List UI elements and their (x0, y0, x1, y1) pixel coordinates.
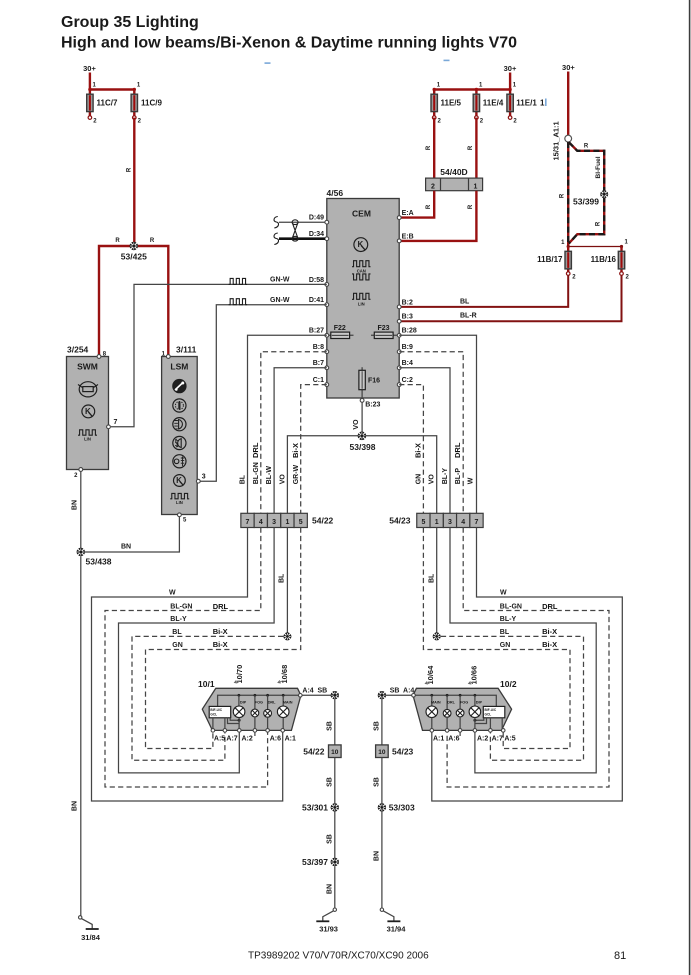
control SWM 3/254 box (67, 345, 109, 470)
splice Bi-X left (283, 632, 291, 640)
svg-text:DRL: DRL (542, 602, 558, 611)
svg-text:B:28: B:28 (402, 328, 417, 335)
power 30+ node (right) (562, 63, 575, 135)
svg-text:A:4: A:4 (302, 688, 313, 695)
lamp 10/2 MAIN bulb (426, 701, 441, 731)
connector 54/23 pin 10 (376, 745, 414, 758)
connector 15/31_A1:1 (552, 121, 572, 160)
svg-text:BN: BN (373, 851, 380, 861)
svg-text:Bi-X: Bi-X (291, 443, 300, 458)
svg-text:A:7: A:7 (226, 736, 237, 743)
svg-text:3/111: 3/111 (176, 345, 197, 355)
fuse 11C/9 (131, 83, 162, 125)
svg-text:BL-Y: BL-Y (500, 616, 517, 623)
svg-text:4: 4 (461, 519, 465, 526)
wire BL-R fuse 11B/16 to CEM B:3 (401, 275, 622, 321)
svg-text:BN: BN (72, 801, 79, 811)
svg-text:7: 7 (246, 519, 250, 526)
svg-text:E:A: E:A (402, 210, 414, 217)
SWM pin 8 (97, 352, 107, 359)
wire R 11E/5 to relay 54/40D (426, 118, 434, 179)
wire GN Bi-X 54/22 pin 5 to lamp 10/1 A:5 (146, 528, 301, 749)
svg-text:B:3: B:3 (402, 314, 413, 321)
svg-text:54/40D: 54/40D (440, 167, 467, 177)
svg-text:A:4: A:4 (403, 688, 414, 695)
svg-text:DIP: DIP (476, 701, 483, 705)
CEM pin E:B (397, 233, 413, 243)
svg-text:BL-Y: BL-Y (442, 468, 449, 485)
svg-text:DRL: DRL (447, 701, 455, 705)
fuse 11E/5 (431, 83, 462, 125)
wire R relay to CEM E:B (401, 191, 476, 241)
twisted pair symbol (292, 220, 298, 241)
svg-text:A:5: A:5 (214, 736, 225, 743)
svg-text:53/438: 53/438 (86, 557, 112, 567)
CEM pin C:2 (397, 377, 413, 387)
svg-text:11B/16: 11B/16 (591, 255, 617, 264)
lamp 10/2 DRL bulb (443, 701, 455, 731)
control LSM 3/111 box (162, 345, 198, 515)
svg-text:R: R (584, 144, 589, 150)
svg-text:1: 1 (540, 99, 545, 108)
wire BN to ground 31/94 (373, 812, 382, 908)
svg-text:R: R (596, 221, 602, 226)
lamp 10/1 pin A:5 (211, 729, 225, 743)
svg-text:VO: VO (429, 474, 436, 485)
splice 53/303 (378, 802, 415, 812)
lamp 10/2 pin A:2 (473, 729, 488, 743)
svg-text:BN: BN (72, 500, 79, 510)
svg-text:SB: SB (373, 777, 380, 787)
lamp 10/1 pin mid (253, 729, 257, 736)
svg-text:53/303: 53/303 (389, 802, 415, 812)
power 30+ node (middle) (504, 64, 517, 90)
svg-text:GN: GN (172, 642, 183, 649)
LSM LIN icon (170, 493, 189, 505)
svg-text:R: R (468, 145, 474, 150)
svg-text:CEM: CEM (352, 209, 371, 219)
svg-text:BL-W: BL-W (266, 466, 273, 485)
CEM pin D:49 (309, 215, 329, 225)
svg-text:Bi-X: Bi-X (413, 443, 422, 458)
svg-text:E:B: E:B (402, 233, 414, 240)
junction SB left (331, 691, 339, 699)
svg-text:10/68: 10/68 (280, 665, 289, 684)
wire BL 54/23 pin 1 to splice (429, 528, 437, 635)
wire BL fuse 11B/17 to CEM B:2 (401, 275, 568, 307)
power 30+ node (left) (83, 64, 96, 90)
svg-text:B:9: B:9 (402, 344, 413, 351)
svg-text:54/22: 54/22 (303, 747, 325, 757)
svg-text:W: W (500, 590, 507, 597)
CEM LIN icon (352, 293, 371, 306)
svg-text:A:6: A:6 (270, 736, 281, 743)
svg-text:10/2: 10/2 (500, 679, 517, 689)
svg-text:LIN: LIN (358, 301, 365, 306)
svg-text:GCL: GCL (210, 712, 217, 716)
svg-text:BL: BL (172, 629, 182, 636)
lamp 10/1 pin A:1 (281, 729, 296, 743)
svg-text:DRL: DRL (268, 701, 276, 705)
svg-text:SB: SB (326, 777, 333, 787)
CEM pin D:41 (309, 297, 329, 307)
junction SB right (378, 691, 386, 699)
svg-text:FOG: FOG (255, 701, 263, 705)
svg-text:4/56: 4/56 (327, 188, 344, 198)
headlamp 10/2 housing (413, 679, 517, 730)
wire 30+ to fuses 11E (433, 88, 512, 91)
svg-text:30+: 30+ (504, 64, 517, 73)
svg-text:R: R (115, 238, 120, 244)
CEM pin B:3 (397, 314, 413, 323)
svg-text:Group 35 Lighting: Group 35 Lighting (61, 14, 199, 31)
svg-text:11E/4: 11E/4 (483, 99, 504, 108)
lamp 10/1 pin A:7 (223, 729, 238, 743)
wire fuse 11B/17 to 11B/16 terminal 1 (561, 240, 628, 249)
svg-text:2: 2 (431, 184, 435, 191)
svg-text:GN-W: GN-W (270, 297, 290, 304)
SWM steering wheel icon (78, 382, 98, 397)
svg-text:D:49: D:49 (309, 215, 324, 222)
svg-text:F16: F16 (368, 377, 380, 384)
wire SB lamp 10/2 to connector 54/23 pin 10 (373, 699, 382, 745)
wire R to SWM and LSM (99, 238, 168, 355)
svg-text:B:7: B:7 (313, 360, 324, 367)
wire BN splice 53/438 to ground 31/84 (72, 556, 81, 916)
wire GN-W CEM D:58 to SWM pin 7 (111, 277, 327, 427)
svg-text:BL-GN: BL-GN (253, 462, 260, 484)
svg-text:BL: BL (429, 573, 436, 583)
relay 54/40D (426, 167, 483, 191)
svg-text:A:2: A:2 (477, 736, 488, 743)
splice 53/397 (302, 857, 339, 867)
svg-text:1: 1 (285, 519, 289, 526)
lamp 10/2 pin mid (458, 729, 462, 736)
lamp 10/2 pin A:5 (501, 729, 515, 743)
page number (614, 950, 626, 962)
splice 53/438 (77, 548, 112, 567)
svg-text:DRL: DRL (453, 442, 462, 458)
svg-text:15/31_A1:1: 15/31_A1:1 (552, 121, 561, 160)
svg-text:11B/17: 11B/17 (537, 255, 563, 264)
svg-text:Bi-X: Bi-X (542, 627, 557, 636)
svg-text:DRL: DRL (213, 602, 229, 611)
wire D:34 (twisted pair, shield) (274, 233, 325, 245)
splice 53/399 (573, 190, 608, 206)
svg-text:A:1: A:1 (433, 736, 444, 743)
page right border (689, 0, 691, 975)
svg-text:D:34: D:34 (309, 231, 324, 238)
svg-text:BIF-U/C: BIF-U/C (210, 708, 222, 712)
wire GN-W CEM D:41 to LSM pin 3 (200, 297, 327, 481)
svg-text:10: 10 (331, 749, 339, 756)
wire VO CEM B:23 to splice 53/398 (353, 402, 362, 433)
svg-text:4: 4 (259, 519, 263, 526)
wire BL-Y CEM B:4 to 54/23 pin 3 (399, 368, 450, 514)
lamp 10/2 pin A:7 (489, 729, 503, 743)
SWM pin 2 (74, 468, 83, 479)
LSM front fog icon (173, 436, 186, 449)
CEM pin B:23 (360, 399, 380, 409)
svg-text:BL-Y: BL-Y (170, 616, 187, 623)
svg-text:DIP: DIP (240, 701, 247, 705)
wire BL-W CEM B:7 to 54/22 pin 3 (266, 368, 327, 514)
wire W CEM B:28 to 54/23 pin 7 (399, 335, 476, 513)
wire BL Bi-X splice to lamp 10/2 A:7 (441, 627, 584, 760)
svg-text:VO: VO (279, 474, 286, 485)
svg-text:30+: 30+ (562, 63, 575, 72)
svg-text:11C/7: 11C/7 (97, 99, 118, 108)
svg-text:5: 5 (299, 519, 303, 526)
CEM pin E:A (397, 210, 413, 220)
svg-text:F23: F23 (377, 325, 389, 332)
CEM pin B:2 (397, 299, 413, 309)
lamp 10/1 FOG bulb (251, 701, 263, 731)
svg-text:BL: BL (240, 474, 247, 484)
svg-text:11C/9: 11C/9 (141, 99, 162, 108)
CEM pin B:8 (313, 344, 329, 354)
svg-text:81: 81 (614, 950, 626, 962)
svg-text:LIN: LIN (176, 500, 183, 505)
svg-text:BI-Fuel: BI-Fuel (595, 156, 602, 178)
svg-text:B:2: B:2 (402, 299, 413, 306)
fuse F23 (371, 325, 399, 339)
wire R Bi-Fuel detour via splice 53/399 (569, 142, 604, 243)
wire BL CEM B:27 to 54/22 pin 7 (240, 335, 327, 513)
svg-text:54/22: 54/22 (312, 516, 334, 526)
wire VO to 54/22 pin 1 and 54/23 pin 1 (279, 436, 436, 514)
SWM LIN icon (78, 430, 97, 442)
svg-text:A:5: A:5 (504, 736, 515, 743)
splice Bi-X right (433, 632, 441, 640)
LSM light switch icon (173, 380, 186, 393)
svg-text:BL-GN: BL-GN (500, 604, 522, 611)
wire SB lamp 10/1 to connector 54/22 pin 10 (326, 699, 335, 745)
wire 30+ to fuses 11C/7 11C/9 (88, 88, 136, 91)
svg-text:A:7: A:7 (492, 736, 503, 743)
splice 53/301 (302, 802, 339, 812)
svg-text:B:4: B:4 (402, 360, 413, 367)
lamp 10/1 pin A:2 (238, 729, 253, 743)
fuse 11C/7 (87, 83, 118, 125)
svg-text:GN: GN (415, 474, 422, 485)
svg-text:F22: F22 (334, 325, 346, 332)
svg-text:10/1: 10/1 (198, 679, 215, 689)
wire SB to splice 53/397 (326, 812, 335, 860)
connector 54/22 pin 10 (303, 745, 341, 758)
svg-text:BL: BL (500, 629, 510, 636)
svg-text:54/23: 54/23 (392, 747, 414, 757)
CEM pin B:9 (397, 344, 413, 354)
svg-text:LIN: LIN (84, 437, 91, 442)
wire BN SWM pin 2 to splice 53/438 (72, 471, 81, 550)
CEM pin B:7 (313, 360, 329, 369)
svg-text:D:41: D:41 (309, 297, 324, 304)
ground 31/84 (79, 916, 101, 942)
lamp 10/2 internal ground rail (414, 694, 496, 710)
svg-text:BN: BN (326, 884, 333, 894)
svg-text:1: 1 (474, 184, 478, 191)
svg-text:54/23: 54/23 (389, 516, 411, 526)
lamp 10/2 FOG bulb (456, 701, 468, 731)
wire R 11C/9 to splice 53/425 (127, 118, 135, 246)
lamp 10/1 internal ground rail (218, 694, 300, 710)
CEM pin D:34 (309, 231, 329, 241)
CEM pin B:27 (309, 328, 329, 337)
wire GN Bi-X 54/23 pin 5 to lamp 10/2 A:5 (423, 528, 570, 749)
wire W 54/23 pin 7 to lamp 10/2 A:1 (432, 528, 623, 802)
svg-text:GN-W: GN-W (270, 277, 290, 284)
svg-text:3: 3 (272, 519, 276, 526)
wire BL-P DRL CEM B:9 to 54/23 pin 4 (399, 352, 463, 514)
CEM CAN icon (352, 261, 371, 280)
svg-text:DRL: DRL (251, 442, 260, 458)
wire W 54/22 pin 7 to lamp 10/1 A:1 (92, 528, 283, 802)
ground 31/93 (316, 908, 338, 934)
svg-text:B:8: B:8 (313, 344, 324, 351)
svg-text:3: 3 (202, 473, 206, 480)
wire SB to splice 53/303 (373, 758, 382, 806)
svg-text:R: R (150, 238, 155, 244)
svg-text:FOG: FOG (460, 701, 468, 705)
connector 54/22 pins 7 4 3 1 5 (241, 513, 334, 527)
wire SB to splice 53/301 (326, 758, 335, 806)
svg-text:Bi-X: Bi-X (542, 640, 557, 649)
svg-text:BN: BN (121, 544, 131, 551)
CEM K icon (354, 238, 368, 252)
svg-text:53/397: 53/397 (302, 857, 328, 867)
svg-text:53/399: 53/399 (573, 197, 599, 207)
svg-text:LSM: LSM (170, 362, 188, 372)
svg-text:C:1: C:1 (313, 377, 324, 384)
svg-text:A:1: A:1 (285, 736, 296, 743)
svg-text:30+: 30+ (83, 64, 96, 73)
page header title (61, 14, 517, 52)
svg-text:R: R (468, 204, 474, 209)
wire BL-Y 54/22 pin 3 to lamp 10/1 A:2 (119, 528, 275, 773)
svg-text:CAN: CAN (357, 268, 366, 273)
lamp 10/2 DIP bulb (469, 701, 486, 731)
svg-text:53/425: 53/425 (121, 252, 147, 262)
svg-text:3/254: 3/254 (67, 345, 89, 355)
svg-text:11E/1: 11E/1 (516, 99, 537, 108)
svg-text:R: R (560, 193, 566, 198)
svg-text:High and low beams/Bi-Xenon &: High and low beams/Bi-Xenon & Daytime ru… (61, 35, 517, 52)
svg-text:MAIN: MAIN (283, 701, 293, 705)
svg-text:R: R (127, 167, 133, 172)
svg-text:10: 10 (378, 749, 386, 756)
LSM pin 3 (196, 479, 200, 483)
lamp 10/1 bi-xenon igniter box (209, 706, 231, 730)
svg-text:GN: GN (500, 642, 511, 649)
splice 53/425 (121, 242, 147, 262)
svg-text:B:27: B:27 (309, 328, 324, 335)
lamp 10/1 pin A:4 and SB wire (299, 688, 333, 698)
svg-text:A:2: A:2 (242, 736, 253, 743)
svg-text:BL: BL (279, 573, 286, 583)
fuse 11B/17 (537, 247, 576, 281)
svg-text:7: 7 (475, 519, 479, 526)
svg-text:TP3989202 V70/V70R/XC70/XC90 2: TP3989202 V70/V70R/XC70/XC90 2006 (248, 951, 429, 962)
CEM pin B:4 (397, 360, 413, 369)
lamp 10/1 MAIN bulb (277, 701, 292, 731)
link artifact marks (265, 60, 547, 106)
svg-text:SB: SB (390, 688, 400, 695)
CEM pin D:58 (309, 277, 329, 287)
svg-text:SB: SB (326, 834, 333, 844)
svg-text:BL-P: BL-P (455, 468, 462, 485)
SWM pin 7 (107, 425, 111, 429)
svg-text:10/64: 10/64 (426, 665, 435, 685)
fuse 11E/4 (473, 83, 504, 125)
ground 31/94 (380, 908, 406, 934)
svg-text:SB: SB (318, 688, 328, 695)
lamp 10/2 pin A:6 (445, 729, 459, 743)
svg-text:BL-GN: BL-GN (170, 604, 192, 611)
svg-text:W: W (169, 590, 176, 597)
wire BL 54/22 pin 1 to splice (279, 528, 288, 635)
svg-text:BIF-U/C: BIF-U/C (485, 708, 497, 712)
LSM K icon (174, 475, 186, 487)
fuse F22 (327, 325, 354, 339)
headlamp 10/1 housing (198, 679, 301, 730)
svg-text:31/94: 31/94 (387, 925, 407, 934)
lamp 10/1 DRL bulb (264, 701, 276, 731)
wire BL-GN DRL to lamp 10/1 A:6 (105, 528, 268, 788)
wire BL-Y 54/23 pin 3 to lamp 10/2 A:2 (450, 528, 596, 773)
lamp 10/2 pin A:4 and SB wire (384, 688, 416, 698)
wire BL Bi-X splice to lamp 10/1 A:7 (132, 627, 283, 760)
LSM headlight icon (173, 418, 186, 431)
splice 53/398 (350, 432, 376, 453)
lamp 10/1 DIP bulb (228, 701, 247, 731)
svg-text:R: R (426, 204, 432, 209)
wire D:49 (twisted pair) (274, 217, 325, 229)
svg-text:A:6: A:6 (448, 736, 459, 743)
svg-text:31/84: 31/84 (81, 933, 101, 942)
svg-text:VO: VO (353, 419, 360, 430)
connector 54/23 pins 5 1 3 4 7 (389, 513, 483, 527)
svg-text:1: 1 (435, 519, 439, 526)
connector 10/66 label (469, 666, 479, 685)
wire BL-GN DRL CEM B:8 to 54/22 pin 4 (251, 352, 327, 514)
fuse 11B/16 (591, 247, 630, 281)
lamp 10/1 pin A:6 (266, 729, 281, 743)
svg-text:5: 5 (421, 519, 425, 526)
svg-text:SB: SB (373, 721, 380, 731)
CEM pin C:1 (313, 377, 329, 387)
svg-text:GR-W: GR-W (293, 464, 300, 484)
LSM pin 5 (178, 513, 188, 524)
svg-text:B:23: B:23 (365, 402, 380, 409)
svg-text:Bi-X: Bi-X (213, 640, 228, 649)
LSM pin 1 (162, 352, 171, 359)
svg-text:C:2: C:2 (402, 377, 413, 384)
wire BN to ground 31/93 (326, 866, 335, 908)
wire R relay to CEM E:A (401, 191, 434, 218)
svg-text:BL-R: BL-R (460, 313, 477, 320)
svg-text:Bi-X: Bi-X (213, 627, 228, 636)
svg-text:SB: SB (326, 721, 333, 731)
svg-text:SWM: SWM (77, 362, 98, 372)
svg-text:W: W (468, 477, 475, 484)
control module CEM 4/56 box (327, 188, 400, 398)
lamp 10/2 bi-xenon igniter box (483, 706, 505, 730)
wire GR-W Bi-X CEM C:1 to 54/22 pin 5 (291, 385, 327, 514)
fuse 11E/1 (507, 83, 545, 125)
LSM dimmer icon (173, 399, 186, 412)
svg-text:53/398: 53/398 (350, 442, 376, 452)
